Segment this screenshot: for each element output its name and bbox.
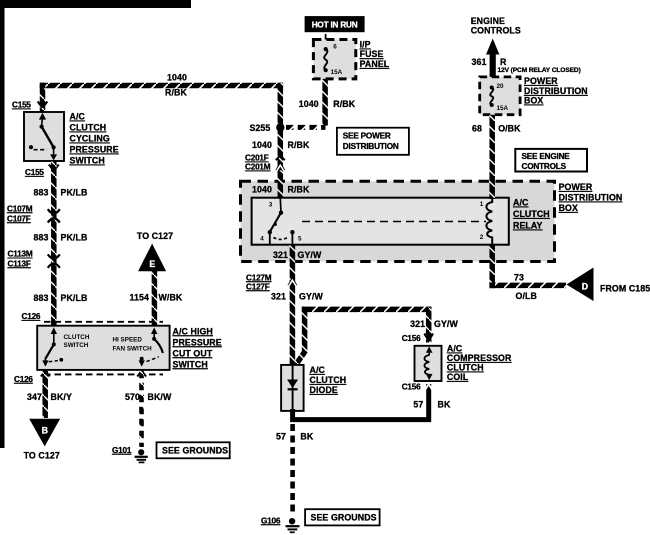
svg-text:HI SPEED: HI SPEED <box>113 337 143 344</box>
svg-text:C127M: C127M <box>246 273 272 282</box>
connector C201F C201M <box>245 154 285 172</box>
svg-text:RELAY: RELAY <box>513 221 543 231</box>
label HI SPEED FAN SWITCH <box>113 337 153 353</box>
label 570 BK/W <box>125 392 172 402</box>
svg-text:POWER: POWER <box>559 182 593 192</box>
svg-text:W/BK: W/BK <box>159 293 183 303</box>
svg-text:570: 570 <box>125 392 140 402</box>
svg-text:PRESSURE: PRESSURE <box>173 337 222 347</box>
svg-text:SEE ENGINE: SEE ENGINE <box>522 152 571 161</box>
svg-text:883: 883 <box>34 293 49 303</box>
svg-text:1040: 1040 <box>252 185 272 195</box>
label 883 PK/LB (3) <box>34 293 88 303</box>
svg-text:HOT IN RUN: HOT IN RUN <box>312 21 358 30</box>
relay switch blade <box>270 213 281 232</box>
svg-text:1: 1 <box>480 201 484 208</box>
connector C156 (bottom) <box>402 383 433 392</box>
svg-text:COIL: COIL <box>447 372 469 382</box>
off-page connector E <box>138 244 166 272</box>
svg-text:SWITCH: SWITCH <box>70 156 105 166</box>
svg-text:DISTRIBUTION: DISTRIBUTION <box>559 193 623 203</box>
svg-text:R: R <box>500 57 507 67</box>
splice S255 <box>249 123 284 133</box>
svg-text:C201F: C201F <box>245 154 269 163</box>
svg-text:CLUTCH: CLUTCH <box>64 334 90 341</box>
switch box (clutch switch / hi speed fan switch) <box>37 326 169 370</box>
svg-text:SWITCH: SWITCH <box>64 342 89 349</box>
label 57 BK (left) <box>276 432 314 442</box>
wire 57 BK to G106 (dashed) <box>290 424 295 516</box>
svg-text:PK/LB: PK/LB <box>61 233 88 243</box>
svg-text:73: 73 <box>514 273 524 283</box>
svg-text:DISTRIBUTION: DISTRIBUTION <box>343 142 399 151</box>
note box SEE GROUNDS (G106) <box>305 509 380 525</box>
relay pin 4 <box>260 230 272 245</box>
svg-text:BOX: BOX <box>524 96 543 106</box>
svg-text:BK/Y: BK/Y <box>51 392 72 402</box>
note box SEE POWER DISTRIBUTION <box>337 128 409 155</box>
svg-text:TO C127: TO C127 <box>137 231 173 241</box>
label POWER DISTRIBUTION BOX (top) <box>524 76 588 106</box>
svg-text:TO C127: TO C127 <box>24 451 60 461</box>
svg-text:C127F: C127F <box>246 282 270 291</box>
label A/C CLUTCH CYCLING PRESSURE SWITCH <box>70 112 119 166</box>
svg-text:G106: G106 <box>261 516 281 525</box>
svg-text:883: 883 <box>34 233 49 243</box>
svg-text:SWITCH: SWITCH <box>173 359 208 369</box>
svg-text:C156: C156 <box>402 334 421 343</box>
svg-text:BK: BK <box>438 400 451 410</box>
svg-text:A/C: A/C <box>447 344 463 354</box>
svg-text:15A: 15A <box>331 69 343 76</box>
wire 570 BK/W <box>139 371 144 447</box>
svg-text:D: D <box>582 282 588 292</box>
svg-text:S255: S255 <box>249 123 270 133</box>
svg-text:FUSE: FUSE <box>360 49 384 59</box>
label 347 BK/Y <box>27 392 72 402</box>
label POWER DISTRIBUTION BOX (right of relay) <box>559 182 623 213</box>
svg-text:B: B <box>42 426 48 436</box>
svg-text:POWER: POWER <box>524 76 558 86</box>
connector C155 (bottom) <box>25 165 59 178</box>
svg-text:321: 321 <box>271 292 286 302</box>
svg-text:4: 4 <box>260 236 264 243</box>
svg-text:COMPRESSOR: COMPRESSOR <box>447 353 512 363</box>
svg-text:SEE GROUNDS: SEE GROUNDS <box>162 446 228 456</box>
label 361 R <box>472 57 507 67</box>
connector C156 (top) <box>402 334 433 344</box>
wire 1040 R/BK (fuse to S255) <box>322 79 328 126</box>
relay inner box <box>252 198 509 245</box>
svg-text:PRESSURE: PRESSURE <box>70 145 119 155</box>
label A/C HIGH PRESSURE CUT OUT SWITCH <box>173 326 222 369</box>
wire 1040 R/BK (S255 to relay pin 3) <box>278 127 284 198</box>
relay internal dashed line <box>302 221 486 223</box>
svg-text:DISTRIBUTION: DISTRIBUTION <box>524 86 588 96</box>
wire 1040 R/BK bus (C155 to S255) <box>40 83 46 112</box>
svg-text:C126: C126 <box>14 375 33 384</box>
svg-text:CUT OUT: CUT OUT <box>173 348 213 358</box>
border top bar <box>0 0 191 8</box>
connector C126 (top) <box>22 312 164 327</box>
label 1040 R/BK (above C201) <box>252 140 310 150</box>
svg-text:15A: 15A <box>497 105 509 112</box>
border left bar <box>0 0 5 448</box>
svg-text:C107F: C107F <box>7 214 31 223</box>
svg-text:PK/LB: PK/LB <box>61 187 88 197</box>
svg-text:321: 321 <box>273 250 288 260</box>
svg-text:C201M: C201M <box>245 163 271 172</box>
label I/P FUSE PANEL <box>360 40 390 70</box>
svg-text:BOX: BOX <box>559 203 578 213</box>
relay coil (pins 1-2) <box>480 198 492 245</box>
svg-text:A/C: A/C <box>310 365 326 375</box>
label 68 O/BK <box>472 124 521 134</box>
svg-text:PK/LB: PK/LB <box>61 293 88 303</box>
label ENGINE CONTROLS <box>471 16 521 36</box>
hi speed fan switch internals <box>139 327 163 366</box>
arrow to engine controls <box>486 39 499 55</box>
svg-text:C126: C126 <box>22 312 41 321</box>
svg-text:GY/W: GY/W <box>434 319 458 329</box>
svg-text:C107M: C107M <box>7 204 33 213</box>
label 1040 R/BK (fuse drop) <box>299 99 356 109</box>
svg-text:FROM C185: FROM C185 <box>600 284 650 294</box>
svg-text:R/BK: R/BK <box>288 140 310 150</box>
wire 883 PK/LB chain <box>51 162 57 326</box>
wire S255 to fuse drop <box>286 125 326 130</box>
label 1154 W/BK <box>130 293 183 303</box>
svg-text:347: 347 <box>27 392 42 402</box>
svg-text:SEE POWER: SEE POWER <box>343 132 391 141</box>
svg-text:GY/W: GY/W <box>298 250 322 260</box>
label A/C COMPRESSOR CLUTCH COIL <box>447 344 512 383</box>
wire 57 BK (coil to diode, solid) <box>293 384 429 420</box>
svg-text:R/BK: R/BK <box>165 88 187 98</box>
connector C107M C107F <box>7 204 60 223</box>
fuse F6 15A (I/P fuse panel) <box>313 34 355 79</box>
svg-text:20: 20 <box>497 83 505 90</box>
pressure switch S (A/C clutch cycling pressure switch) box <box>24 112 64 161</box>
svg-text:GY/W: GY/W <box>299 292 323 302</box>
note box SEE GROUNDS (G101) <box>157 442 230 458</box>
svg-text:3: 3 <box>269 202 273 209</box>
svg-text:5: 5 <box>298 236 302 243</box>
diode CR (A/C clutch diode) box <box>281 365 304 411</box>
relay K (A/C clutch relay) outer power distribution box <box>241 181 555 261</box>
svg-text:BK: BK <box>300 432 313 442</box>
label 321 GY/W (inside relay box) <box>273 250 322 260</box>
svg-text:CLUTCH: CLUTCH <box>513 209 550 219</box>
off-page connector B <box>29 419 60 447</box>
clutch switch internals <box>42 327 63 366</box>
coil internals <box>424 346 432 380</box>
connector C113M C113F <box>8 250 60 269</box>
wire 68 O/BK <box>489 115 495 199</box>
svg-text:O/LB: O/LB <box>516 291 537 301</box>
label 321 GY/W (below C127) <box>271 292 323 302</box>
ground G101 <box>112 446 148 463</box>
pressure switch internals <box>29 113 57 161</box>
connector C155 (top) <box>12 101 47 110</box>
svg-text:CLUTCH: CLUTCH <box>70 123 107 133</box>
svg-text:CLUTCH: CLUTCH <box>310 375 347 385</box>
svg-text:PANEL: PANEL <box>360 59 390 69</box>
svg-text:1040: 1040 <box>167 73 187 83</box>
svg-text:R/BK: R/BK <box>333 99 355 109</box>
wire 347 BK/Y <box>42 371 48 418</box>
svg-text:E: E <box>149 259 155 269</box>
svg-text:I/P: I/P <box>360 40 371 50</box>
connector C126 (bottom) <box>14 371 163 384</box>
svg-text:DIODE: DIODE <box>310 385 338 395</box>
diode symbol <box>287 365 298 411</box>
relay pin 3 <box>269 198 283 215</box>
svg-text:C155: C155 <box>12 101 31 110</box>
svg-text:A/C: A/C <box>70 112 86 122</box>
svg-text:1040: 1040 <box>299 99 319 109</box>
svg-text:A/C: A/C <box>513 198 529 208</box>
svg-text:C113F: C113F <box>8 259 31 268</box>
relay contact dashed arc <box>274 237 289 240</box>
svg-text:BK/W: BK/W <box>148 392 172 402</box>
svg-text:A/C HIGH: A/C HIGH <box>173 326 213 336</box>
label A/C CLUTCH RELAY <box>513 198 550 231</box>
splice S255 dot (over wire) <box>276 123 284 131</box>
svg-text:883: 883 <box>34 187 49 197</box>
svg-text:ENGINE: ENGINE <box>471 16 505 26</box>
svg-text:C156: C156 <box>402 383 421 392</box>
wire 361 R (solid) <box>490 53 496 78</box>
svg-text:FAN SWITCH: FAN SWITCH <box>113 346 153 353</box>
label 883 PK/LB (2) <box>34 233 88 243</box>
svg-text:361: 361 <box>472 57 487 67</box>
wire 321 GY/W (pin 5 to diode) <box>290 245 296 365</box>
connector C127M C127F <box>246 273 297 291</box>
svg-text:CONTROLS: CONTROLS <box>522 162 567 171</box>
svg-text:6: 6 <box>333 44 337 51</box>
svg-text:G101: G101 <box>112 446 132 455</box>
label A/C CLUTCH DIODE <box>310 365 347 395</box>
relay pin 5 <box>290 230 302 245</box>
ground G106 <box>261 516 300 532</box>
wire 321 GY/W branch to compressor coil <box>296 308 305 365</box>
label CLUTCH SWITCH <box>64 334 90 349</box>
svg-text:57: 57 <box>413 400 423 410</box>
svg-text:1154: 1154 <box>130 293 149 303</box>
wire 1154 W/BK <box>152 271 158 325</box>
svg-text:CONTROLS: CONTROLS <box>471 26 521 36</box>
svg-text:O/BK: O/BK <box>498 124 521 134</box>
note box SEE ENGINE CONTROLS <box>515 149 587 172</box>
label 321 GY/W (at coil) <box>410 319 458 329</box>
svg-text:12V (PCM RELAY CLOSED): 12V (PCM RELAY CLOSED) <box>498 67 581 74</box>
label 57 BK (right) <box>413 400 451 410</box>
fuse F20 15A (power distribution box) <box>480 77 520 115</box>
svg-text:C113M: C113M <box>8 250 33 259</box>
svg-text:SEE GROUNDS: SEE GROUNDS <box>311 512 377 522</box>
svg-text:CYCLING: CYCLING <box>70 134 110 144</box>
node HOT IN RUN <box>305 16 365 32</box>
svg-text:1040: 1040 <box>252 140 272 150</box>
off-page connector D <box>567 268 594 302</box>
label 883 PK/LB (1) <box>34 187 88 197</box>
svg-text:C155: C155 <box>25 168 44 177</box>
label 1040 R/BK (inside relay box) <box>252 185 310 195</box>
svg-text:68: 68 <box>472 124 482 134</box>
svg-text:57: 57 <box>276 432 286 442</box>
svg-text:321: 321 <box>410 319 425 329</box>
coil L (A/C compressor clutch coil) box <box>415 346 442 381</box>
wire 73 O/LB (pin 2 to D) <box>489 244 495 288</box>
svg-text:2: 2 <box>480 234 484 241</box>
svg-text:R/BK: R/BK <box>288 185 310 195</box>
svg-text:CLUTCH: CLUTCH <box>447 363 484 373</box>
